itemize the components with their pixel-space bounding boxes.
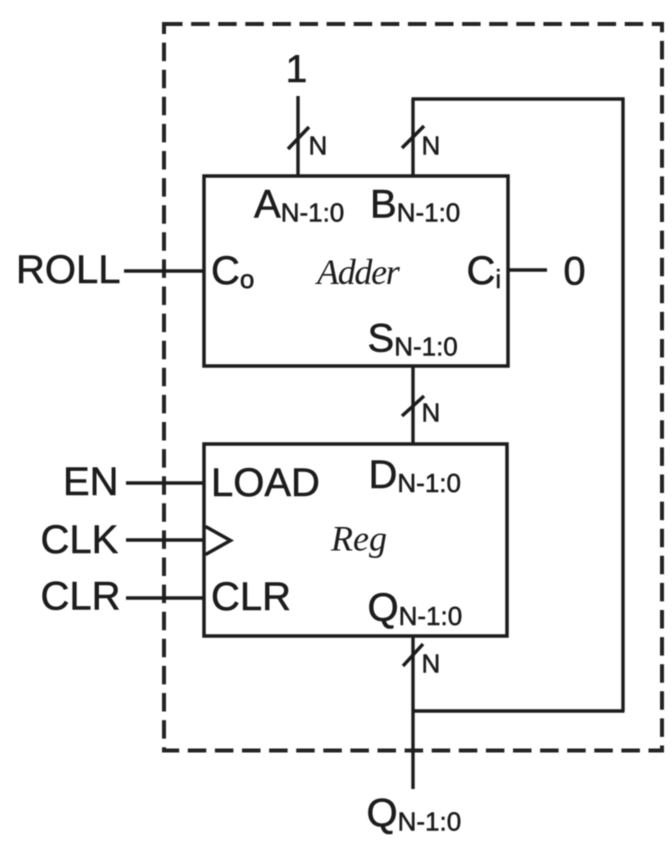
svg-text:0: 0 bbox=[563, 250, 585, 294]
wire: adder S to register D bbox=[411, 366, 414, 444]
wire: feedback right vertical bbox=[621, 98, 624, 712]
svg-text:N: N bbox=[422, 131, 441, 161]
wire: constant 1 to adder A input bbox=[296, 96, 299, 176]
svg-text:Reg: Reg bbox=[330, 519, 387, 559]
bus slash on B input bbox=[402, 126, 424, 148]
svg-text:CLR: CLR bbox=[41, 575, 121, 619]
svg-text:1: 1 bbox=[286, 48, 308, 91]
bus slash on S wire bbox=[402, 396, 424, 416]
wire: register Q output down through boundary bbox=[411, 636, 414, 789]
svg-text:ROLL: ROLL bbox=[16, 248, 121, 292]
wire: CLK to register clock pin bbox=[126, 538, 204, 541]
svg-text:CLR: CLR bbox=[211, 575, 291, 619]
dashed module boundary bbox=[164, 24, 662, 751]
svg-text:CLK: CLK bbox=[41, 518, 119, 562]
svg-text:Adder: Adder bbox=[315, 252, 401, 292]
svg-text:LOAD: LOAD bbox=[211, 461, 320, 505]
wire: ROLL to adder Co bbox=[124, 269, 204, 272]
svg-text:N: N bbox=[422, 649, 441, 679]
svg-text:N: N bbox=[309, 131, 328, 161]
register U2 box bbox=[204, 444, 507, 636]
svg-text:EN: EN bbox=[63, 460, 119, 504]
adder U1 box bbox=[204, 176, 508, 366]
svg-text:N: N bbox=[422, 398, 441, 428]
wire: EN to register LOAD bbox=[126, 481, 204, 484]
wire: feedback bottom horizontal bbox=[413, 709, 625, 712]
wire: feedback top horizontal bbox=[412, 97, 625, 100]
bus slash on Q output bbox=[403, 644, 423, 666]
wire: Ci to constant 0 bbox=[508, 268, 547, 271]
bus slash on A input bbox=[288, 127, 309, 149]
register clock triangle bbox=[206, 527, 231, 555]
wire: CLR to register CLR bbox=[126, 596, 204, 599]
wire: feedback to adder B input bbox=[411, 99, 414, 176]
